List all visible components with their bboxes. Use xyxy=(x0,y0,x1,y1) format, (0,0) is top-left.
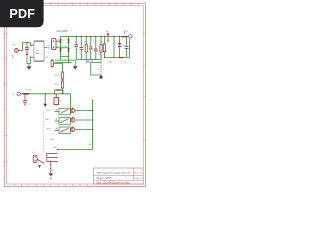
ground GND3 xyxy=(99,75,102,78)
svg-text:ESR Capacitor Leakage Tester v: ESR Capacitor Leakage Tester v2.1 xyxy=(97,172,133,175)
node divider mid xyxy=(62,79,63,80)
AC source J1 xyxy=(14,49,22,53)
svg-text:R3 4k7: R3 4k7 xyxy=(54,75,59,77)
wire X1 to bridge xyxy=(56,41,69,47)
wire K2 to rail xyxy=(75,119,93,121)
wire stub D6 label xyxy=(107,32,109,33)
bridge rectifier B1 outline xyxy=(61,36,69,56)
resistor R4 xyxy=(62,81,64,88)
wire stub OUT label pointer xyxy=(124,31,126,35)
svg-text:S1: S1 xyxy=(32,152,34,154)
svg-text:K1: K1 xyxy=(61,112,63,114)
wire selector down xyxy=(50,162,52,168)
node dot sense xyxy=(45,93,46,94)
svg-text:C2: C2 xyxy=(79,53,81,55)
svg-text:+12V: +12V xyxy=(108,62,113,64)
svg-text:R1: R1 xyxy=(84,42,86,44)
svg-text:C4: C4 xyxy=(93,42,95,44)
resistor R11 bypass xyxy=(55,89,62,90)
diode D3 xyxy=(67,39,70,42)
svg-text:TRAFO: TRAFO xyxy=(35,52,41,55)
node dot bridge out xyxy=(72,36,73,37)
wire branch v9 xyxy=(119,36,121,57)
node dot v10 xyxy=(126,36,127,37)
svg-text:SEL2: SEL2 xyxy=(45,119,49,121)
wire branch v6 xyxy=(100,36,102,59)
svg-text:D2: D2 xyxy=(63,49,65,51)
node dot elbow xyxy=(57,149,59,151)
wire feedback loop xyxy=(91,63,101,75)
ground arrow GND4 xyxy=(43,104,47,107)
svg-text:230V: 230V xyxy=(13,53,15,58)
diode D2 xyxy=(59,48,62,51)
transistor Q3 xyxy=(71,126,75,131)
capacitor C6 xyxy=(125,47,129,49)
node dot K1 rail xyxy=(92,110,93,111)
capacitor C1 xyxy=(74,45,78,47)
varistor D5 xyxy=(26,54,29,59)
resistor R3 xyxy=(62,72,64,79)
switch S1 pole xyxy=(33,155,44,163)
svg-text:AC: AC xyxy=(13,44,16,47)
svg-text:4x1N4007: 4x1N4007 xyxy=(56,29,68,33)
relay K3 xyxy=(55,127,71,134)
node dot v5 xyxy=(95,36,96,37)
wire input loop xyxy=(23,43,34,67)
input terminal TP1 xyxy=(17,92,24,95)
bypass loop wire xyxy=(55,90,64,94)
svg-text:C1: C1 xyxy=(73,41,75,43)
svg-text:R4 1k: R4 1k xyxy=(54,84,59,86)
node dot v9 xyxy=(119,36,120,37)
svg-text:K3: K3 xyxy=(61,130,63,132)
node rail top xyxy=(92,100,93,101)
svg-text:C9: C9 xyxy=(29,46,31,48)
wire branch v1 xyxy=(75,36,77,59)
frame bottom ruler ticks xyxy=(14,184,87,186)
sheet frame inner border xyxy=(7,6,144,184)
resistor R9 xyxy=(51,59,53,68)
svg-text:OUT+: OUT+ xyxy=(124,31,130,33)
node dot v7 xyxy=(104,36,105,37)
svg-text:P1: P1 xyxy=(60,101,62,103)
wire branch v7 xyxy=(103,36,105,57)
wire branch v3 xyxy=(85,36,87,59)
wire branch v8 xyxy=(113,36,115,57)
capacitor C2 xyxy=(79,48,83,50)
title block outline xyxy=(94,168,144,184)
ground pole xyxy=(38,165,41,168)
wire K3 to rail xyxy=(75,128,93,130)
node dot bypass right xyxy=(62,93,63,94)
wire branch v5 xyxy=(95,36,97,59)
node dot bypass left xyxy=(54,93,55,94)
resistor R10 red dot column xyxy=(100,56,102,76)
node dot K3 rail xyxy=(92,129,93,130)
diode D1 xyxy=(59,39,62,42)
PDF badge xyxy=(0,0,44,27)
resistor R8 on top rail xyxy=(122,36,127,37)
wire range drop xyxy=(70,94,72,113)
capacitor C3 xyxy=(89,47,93,49)
capacitor C4 xyxy=(94,49,98,51)
node dot v2 xyxy=(81,36,82,37)
resistor R6 on rail xyxy=(119,57,124,58)
svg-text:PDF: PDF xyxy=(9,7,35,21)
svg-text:C7: C7 xyxy=(27,104,29,106)
svg-text:COM: COM xyxy=(88,144,93,146)
ground GND2 xyxy=(73,66,78,69)
selector contact comb xyxy=(47,153,58,163)
LED1 xyxy=(118,43,122,47)
dashed mechanical link xyxy=(43,112,45,154)
ground GND1 xyxy=(27,66,32,69)
wire divider to sense xyxy=(62,88,64,94)
svg-text:Drawn by: Matt: Drawn by: Matt xyxy=(114,181,130,184)
svg-text:K2: K2 xyxy=(61,121,63,123)
node input junction xyxy=(26,42,27,43)
frame top ruler ticks xyxy=(14,3,138,6)
wire bottom elbow xyxy=(58,149,93,151)
svg-text:RNG: RNG xyxy=(50,139,55,141)
svg-text:SEL3: SEL3 xyxy=(46,129,50,131)
node dot v1 xyxy=(76,36,77,37)
resistor R1 xyxy=(85,44,87,52)
relay K1 xyxy=(55,108,71,115)
thyristor D6 xyxy=(107,33,110,41)
svg-text:Rev: 2.1: Rev: 2.1 xyxy=(135,172,144,174)
frame right ruler ticks xyxy=(143,33,145,140)
connector X1 xyxy=(52,39,56,50)
wire relay right rail xyxy=(92,100,94,149)
svg-text:R7 10k: R7 10k xyxy=(26,89,32,91)
node dot v8 xyxy=(113,36,114,37)
output terminal OUT+ xyxy=(127,35,132,38)
pin marks relay left xyxy=(55,109,57,129)
svg-text:SEL1: SEL1 xyxy=(46,110,50,112)
node dot K2 rail xyxy=(92,119,93,120)
svg-text:L: L xyxy=(48,40,49,42)
resistor R5 xyxy=(103,44,105,52)
resistor R7 xyxy=(23,93,29,95)
wire sense drop xyxy=(44,94,46,104)
wire bridge bottom bus xyxy=(55,56,75,66)
transistor Q1 xyxy=(71,107,75,112)
svg-text:R2: R2 xyxy=(98,54,100,56)
svg-text:SW: SW xyxy=(53,147,56,149)
wire R9 to divider xyxy=(54,63,63,71)
svg-text:1k: 1k xyxy=(97,69,99,71)
capacitor C7 xyxy=(23,94,27,106)
wire positive top rail xyxy=(69,35,129,37)
svg-text:C3: C3 xyxy=(88,53,90,55)
wire to ground xyxy=(50,167,52,173)
label VREF tag xyxy=(86,60,92,63)
diode D4 xyxy=(67,48,70,51)
svg-text:D1: D1 xyxy=(63,40,65,42)
wire K1 to rail xyxy=(75,110,93,112)
node dots bottom rail xyxy=(104,57,105,58)
wire filter bottom bus xyxy=(76,59,101,61)
wire T1 secondary pin xyxy=(44,46,47,48)
svg-text:D5: D5 xyxy=(29,57,31,59)
relay K2 xyxy=(55,118,71,125)
wire branch v4 xyxy=(90,36,92,59)
frame left ruler ticks xyxy=(4,13,6,162)
svg-text:Design: TDRH: Design: TDRH xyxy=(96,177,112,180)
node dot v4 xyxy=(90,36,91,37)
title block row lines xyxy=(94,168,144,184)
capacitor C9 xyxy=(25,43,29,54)
ground GND5 xyxy=(48,173,53,179)
sheet frame outer border xyxy=(4,3,145,186)
svg-text:R5: R5 xyxy=(101,41,103,43)
wire bottom right rail xyxy=(104,39,129,58)
wire branch v2 xyxy=(80,36,82,59)
transformer T1 body xyxy=(34,41,44,62)
node dot v3 xyxy=(86,36,87,37)
wire branch v10 xyxy=(126,36,128,57)
transistor Q2 xyxy=(71,117,75,122)
svg-text:Sheet 1/1: Sheet 1/1 xyxy=(135,177,145,180)
node dot v6 xyxy=(100,36,101,37)
resistor R2 xyxy=(100,44,102,52)
potentiometer P1 xyxy=(54,94,59,106)
node dot range drop xyxy=(70,112,71,113)
wire sense line xyxy=(30,93,71,95)
svg-text:R9: R9 xyxy=(46,57,48,59)
